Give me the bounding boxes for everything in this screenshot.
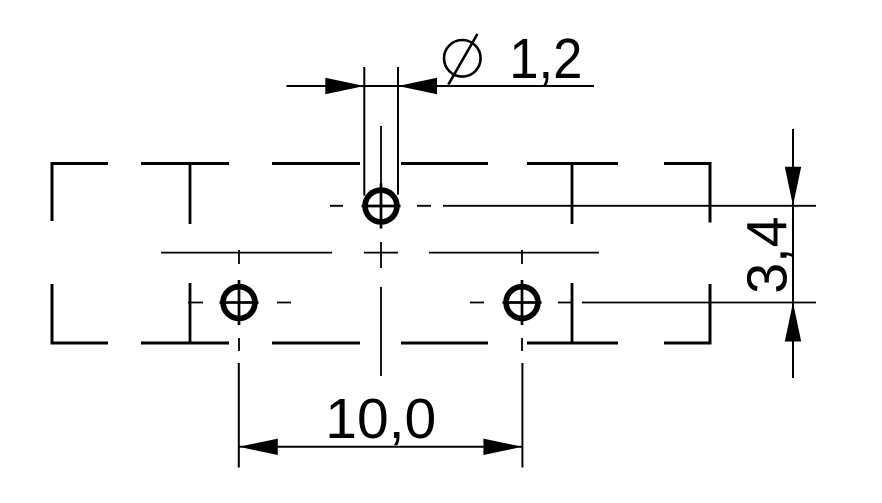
dimension line diameter 1,2 [287, 85, 595, 87]
part outline right edge [709, 162, 712, 345]
arrowhead bottom of 3,4 dim [785, 303, 801, 342]
internal edge line right [571, 164, 574, 345]
diameter symbol [444, 34, 481, 85]
part outline left edge [51, 162, 54, 345]
dimension line 10,0 [239, 446, 523, 448]
centerline mid horizontal [161, 252, 599, 254]
svg-text:10,0: 10,0 [325, 387, 436, 451]
centerline vertical part axis [380, 126, 382, 376]
arrowhead top of 3,4 dim [785, 167, 801, 206]
centerline vertical right hole [521, 250, 523, 351]
centerline vertical left hole [238, 250, 240, 351]
arrowhead left of 10,0 dim [239, 439, 278, 455]
arrowhead right of 10,0 dim [483, 439, 522, 455]
part outline top edge (hidden/dashed) [52, 162, 710, 165]
centerline horizontal bottom holes [188, 302, 816, 304]
svg-text:1,2: 1,2 [509, 27, 582, 91]
extension lines 10,0 dimension [239, 363, 523, 468]
hole H2 bottom-left circle [220, 280, 259, 325]
svg-text:3,4: 3,4 [736, 217, 800, 294]
hole H3 bottom-right circle [503, 280, 542, 325]
part outline bottom edge (hidden/dashed) [52, 342, 710, 345]
arrowhead left of diameter dim [325, 78, 364, 94]
internal edge line left [189, 164, 192, 345]
arrowhead right of diameter dim [398, 78, 437, 94]
hole H1 top circle [362, 184, 401, 229]
centerline horizontal top hole [330, 205, 816, 207]
dimension line 3,4 vertical [792, 129, 794, 378]
extension lines diameter dimension [364, 67, 398, 196]
